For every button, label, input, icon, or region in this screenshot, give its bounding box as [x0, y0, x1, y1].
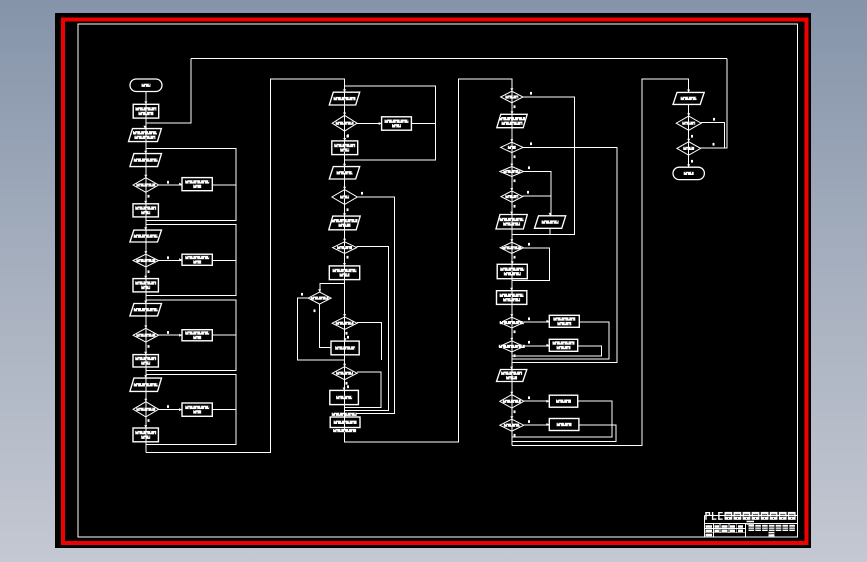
- process col1 block2 output: [133, 276, 158, 292]
- input col1 block4: [130, 375, 162, 391]
- wire col3 d5 branch loop: [512, 248, 550, 281]
- decision col1 block4: [133, 399, 159, 417]
- label Y col4 d2: [691, 160, 693, 163]
- decision col3 d6: [500, 314, 524, 328]
- process col2 r3: [329, 263, 359, 280]
- wire col3 d2 branch loop: [512, 147, 617, 362]
- wire top loop line A: [191, 58, 727, 60]
- input col1 block3: [130, 301, 162, 316]
- input col3 delay p3: [535, 213, 566, 228]
- label N col3 d5: [528, 243, 530, 246]
- label N col4 d2: [713, 143, 715, 146]
- decision col3 d1: [501, 88, 523, 103]
- wire col2 d1 branch: [357, 123, 382, 125]
- label N col3 d4: [527, 191, 529, 194]
- process col2 rd: [331, 338, 359, 355]
- label Y col2 d1: [347, 135, 349, 138]
- wire col2 d3 branch loop: [345, 247, 389, 411]
- wire col1 block3 loop box: [146, 300, 236, 371]
- wire col1 block1 loop box: [146, 149, 236, 221]
- label N col3 d7: [528, 341, 530, 344]
- wire col1 block4 delay to loop box: [212, 408, 236, 410]
- decision col4 d2: [677, 139, 701, 155]
- label N col1 block4: [167, 405, 169, 408]
- decision col2 small counter: [308, 289, 331, 304]
- decision col2 d2: [332, 187, 357, 205]
- wire col3 d1 branch loop: [512, 97, 575, 235]
- wire col3 d3 branch: [524, 172, 551, 216]
- label N col1 block2: [167, 256, 169, 259]
- wire col4 d2 branch to line A: [701, 59, 727, 148]
- wire col3 p3 down to junction: [549, 228, 551, 234]
- input col2 p3: [329, 213, 360, 230]
- wire col1 block2 loop box: [146, 225, 236, 296]
- wire col3 rr4 loop: [512, 425, 616, 441]
- process col1 block4 output: [133, 425, 158, 442]
- process delay col1 block1: [179, 178, 212, 191]
- label N col3 d1: [530, 92, 532, 95]
- title text PLC control system flow: [705, 512, 795, 520]
- decision col2 de: [332, 364, 357, 380]
- input col2 p2: [329, 164, 359, 179]
- label Y col1 block1: [148, 195, 150, 198]
- label N col3 d3: [528, 166, 530, 169]
- wire col2 small diamond down: [320, 304, 331, 347]
- process col1 block3 output: [133, 352, 158, 367]
- input col3 p4: [497, 367, 527, 382]
- title block table lines: [705, 524, 746, 537]
- label N col3 d6: [528, 317, 530, 320]
- decision col4 d1: [676, 113, 701, 130]
- input setup data: [129, 126, 162, 142]
- label N col3 d2: [530, 142, 532, 145]
- process col3 rr1: [546, 315, 579, 327]
- wire col2 d2 branch loop: [345, 197, 395, 414]
- wire col1 block2 branch to delay: [159, 260, 183, 262]
- label Y col3 d6: [514, 330, 516, 333]
- wire col3 d7 branch: [524, 345, 550, 347]
- terminator end: [673, 164, 704, 179]
- decision col3 d5: [500, 239, 523, 253]
- label F col2 d1: [347, 134, 349, 137]
- label Y col3 d3: [514, 179, 516, 182]
- wire col1 block1 branch to delay: [159, 184, 183, 186]
- input col1 block2: [130, 227, 162, 242]
- decision col2 d1: [332, 113, 357, 132]
- wire col2 main vertical: [344, 92, 346, 437]
- label Y col3 d7: [514, 354, 516, 357]
- process col3 r7: [497, 288, 527, 305]
- label N col1 block3: [167, 331, 169, 334]
- text col2 output label below: [333, 429, 356, 432]
- label Y col1 block4: [148, 419, 150, 422]
- terminator start: [130, 79, 162, 92]
- wire col2 top loop: [345, 86, 436, 160]
- process col1 block1 output: [133, 201, 158, 217]
- label N col3 d9: [528, 420, 530, 423]
- label Y col2 d2: [347, 208, 349, 211]
- label Y col2 dc: [346, 332, 348, 335]
- wire col4 main vertical: [688, 104, 690, 167]
- wire col3 rr2 loop: [512, 346, 602, 356]
- decision col3 d7: [499, 338, 525, 352]
- wire col1 block2 delay to loop box: [212, 260, 236, 262]
- wire col1 block3 delay to loop box: [212, 334, 236, 336]
- wire col1 main vertical: [145, 92, 147, 453]
- decision col3 d2: [501, 139, 523, 152]
- process delay col1 block4: [179, 403, 212, 416]
- white drawing border: [78, 24, 798, 537]
- wire col2 dc branch loop: [357, 322, 382, 359]
- wire col3 exit to col4: [512, 79, 689, 445]
- decision col2 dc: [332, 314, 357, 329]
- wire col3 main vertical: [511, 91, 513, 445]
- process col2 r2: [332, 138, 358, 155]
- process col3 rr4: [546, 419, 578, 431]
- wire col3 d4 branch: [523, 195, 551, 197]
- process initialise: [133, 101, 159, 118]
- label Y col3 d9: [514, 434, 516, 437]
- wire col2 small diamond left loop: [297, 298, 344, 360]
- label Y col2 d3: [347, 256, 349, 259]
- title block outline: [705, 515, 798, 537]
- input col2 top: [329, 89, 359, 105]
- label Y col2 small: [314, 309, 316, 312]
- wire col3 d6 branch: [523, 321, 549, 323]
- input col1 block1: [130, 151, 162, 167]
- wire line A left drop into col1: [146, 59, 191, 124]
- wire col1 exit to col2: [146, 79, 345, 452]
- label N col3 d8: [528, 396, 530, 399]
- title text second char: [747, 521, 755, 525]
- wire col3 rr3 loop: [512, 401, 612, 437]
- label Y col3 d5: [514, 256, 516, 259]
- decision col3 d9: [500, 416, 524, 431]
- decision col3 d8: [500, 392, 524, 408]
- decision col2 d3: [333, 239, 357, 254]
- process col3 rr3: [546, 395, 577, 407]
- decision col1 block3: [133, 325, 159, 342]
- wire col3 rr1 loop: [512, 322, 609, 359]
- input col3 p1: [497, 111, 527, 127]
- wire col3 d9 branch: [524, 424, 550, 426]
- wire col3 d8 branch: [524, 400, 550, 402]
- label Y col3 d2: [514, 155, 516, 158]
- label N col1 block1: [167, 181, 169, 184]
- process col3 r6: [497, 261, 527, 278]
- label Y col3 d1: [514, 105, 516, 108]
- wire col2 branch to small diamond: [320, 283, 345, 292]
- label F col2 dc: [347, 336, 349, 339]
- wire col1 block4 loop box: [146, 374, 236, 444]
- decision col1 block1: [133, 175, 159, 193]
- wire col2 de branch loop: [345, 372, 381, 407]
- wire col1 block4 branch to delay: [159, 408, 183, 410]
- label Y col3 d8: [514, 410, 516, 413]
- wire col1 block1 delay to loop box: [212, 184, 236, 186]
- label b col2 small: [301, 293, 303, 296]
- label Y col1 block2: [148, 270, 150, 273]
- wire col4 d1 branch: [701, 123, 724, 148]
- wire col2 delay1 to loop: [411, 123, 435, 125]
- label b col2 d2: [361, 192, 363, 195]
- label Y col1 block3: [148, 345, 150, 348]
- input col4 top: [673, 90, 704, 105]
- decision col3 d4: [501, 188, 523, 202]
- label N col4 d1: [713, 118, 715, 121]
- label F col2 de: [347, 385, 349, 388]
- title institute name: [749, 525, 795, 537]
- process col2 output block: [330, 414, 360, 427]
- label Y col2 de: [346, 382, 348, 385]
- process col3 rr2: [546, 339, 577, 351]
- process col2 delay1: [379, 117, 412, 130]
- title table cell text: [706, 525, 744, 536]
- process delay col1 block3: [179, 330, 212, 341]
- label Y col4 d1: [691, 135, 693, 138]
- wire col1 block3 branch to delay: [159, 334, 183, 336]
- label Y col3 d4: [514, 205, 516, 208]
- decision col1 block2: [133, 251, 159, 267]
- text col2 output label above: [332, 413, 357, 416]
- decision col3 d3: [500, 164, 524, 177]
- wire col2 exit to col3: [345, 79, 512, 442]
- process col2 rf: [330, 388, 359, 405]
- input col3 p2: [496, 212, 527, 229]
- process delay col1 block2: [179, 254, 212, 265]
